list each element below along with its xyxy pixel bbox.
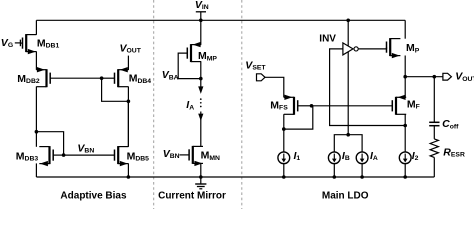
wire MDB2 drain down [35, 87, 37, 132]
wire IA to rail [361, 164, 363, 177]
inverter INV [343, 43, 358, 55]
transistor MMN [180, 146, 204, 166]
current IA arrow lower [198, 112, 203, 147]
svg-text:VBA: VBA [162, 69, 179, 81]
junction VIN-rail [199, 19, 203, 23]
transistor MDB1 [21, 34, 37, 54]
wire MDB3 source to rail [35, 163, 37, 177]
wire MDB5 source to rail [127, 163, 129, 177]
svg-text:MFS: MFS [270, 99, 288, 111]
wire INV input [330, 49, 406, 126]
wire MFS gate [298, 105, 312, 107]
junction MDB4 drain [127, 100, 131, 104]
wire MP drain down [404, 56, 406, 77]
label MDB3 [16, 150, 39, 162]
wire VOUT stub [127, 56, 129, 70]
wire MDB1 source to MDB2 [35, 51, 37, 70]
junction MDB5 rail [127, 175, 131, 179]
svg-text:MDB4: MDB4 [129, 73, 152, 85]
label MF [407, 99, 420, 111]
svg-text:VG: VG [1, 37, 13, 49]
svg-text:I1: I1 [294, 150, 301, 162]
current source IB [328, 152, 340, 164]
svg-text:MF: MF [407, 99, 420, 111]
svg-text:MDB3: MDB3 [16, 150, 39, 162]
node VBA label [162, 69, 179, 81]
wire MDB1 drain to rail [35, 20, 37, 35]
node VSET label [245, 60, 266, 72]
wire MF to I2 [404, 126, 406, 152]
wire MMP gate [178, 53, 201, 79]
label MP [406, 42, 420, 54]
label MFS [270, 99, 288, 111]
wire MDB3 drain [35, 132, 37, 147]
terminal VG [15, 40, 21, 47]
svg-text:MDB5: MDB5 [127, 150, 150, 162]
wire INV out [358, 48, 386, 50]
svg-text:VIN: VIN [195, 0, 209, 11]
junction IA rail [360, 175, 364, 179]
wire to I1 [283, 129, 285, 152]
node VBN label mirror [163, 148, 180, 160]
junction I1 rail [282, 175, 286, 179]
dotted continuation [200, 98, 202, 107]
ground symbol [195, 177, 206, 189]
wire ground bottom rail [36, 176, 434, 178]
section separator (dashed) 2 [241, 0, 243, 209]
svg-text:INV: INV [319, 33, 336, 44]
svg-text:VOUT: VOUT [455, 71, 474, 83]
label IA2 [370, 150, 378, 162]
section label Main LDO [322, 190, 369, 201]
wire MF drain up [404, 77, 406, 98]
svg-text:VBN: VBN [163, 148, 180, 160]
junction I2 rail [403, 175, 407, 179]
svg-text:I2: I2 [412, 150, 419, 162]
terminal VOUT flag [443, 73, 452, 80]
wire MMN source to rail [200, 163, 202, 177]
wire INV low to bracket [347, 52, 349, 135]
svg-text:Adaptive Bias: Adaptive Bias [60, 190, 127, 201]
wire bracket [334, 135, 362, 152]
wire VOUT right [405, 76, 443, 78]
svg-text:MMN: MMN [201, 150, 220, 162]
transistor MMP [187, 42, 201, 62]
node VIN label [195, 0, 209, 11]
label MMN [201, 150, 220, 162]
terminal VSET flag [257, 74, 266, 81]
wire rail to MP [404, 20, 406, 38]
wire Coff to Resr [433, 126, 435, 139]
transistor MDB3 [39, 146, 53, 166]
junction MMN rail [199, 175, 203, 179]
wire IB to rail [333, 164, 335, 177]
svg-text:Main LDO: Main LDO [322, 190, 369, 201]
transistor MDB5 [115, 146, 129, 166]
node VG label [1, 37, 13, 49]
wire MFS diode link [284, 106, 313, 129]
terminal VIN [196, 12, 206, 20]
wire VBN [64, 154, 115, 156]
label Coff [442, 118, 459, 130]
junction MFS gate node [310, 104, 314, 108]
wire gate bus MFS-MF [312, 105, 393, 107]
svg-text:IA: IA [370, 150, 378, 162]
resistor RESR [430, 139, 438, 158]
svg-text:MDB2: MDB2 [17, 73, 40, 85]
wire I2 to rail [404, 164, 406, 177]
label IA mirror [186, 99, 194, 111]
section label Current Mirror [158, 190, 226, 201]
wire MDB5 drain up [127, 101, 129, 146]
transistor MDB2 [36, 67, 50, 87]
svg-text:RESR: RESR [443, 146, 465, 158]
junction VBN left node [62, 153, 66, 157]
svg-text:Coff: Coff [442, 118, 459, 130]
label MDB1 [37, 37, 60, 49]
current source I1 [278, 152, 290, 164]
junction MF source node [403, 124, 407, 128]
label RESR [443, 146, 465, 158]
wire I1 to rail [283, 164, 285, 177]
wire VIN top rail [36, 19, 405, 21]
transistor MDB4 [102, 67, 129, 87]
junction VOUT-Coff [433, 75, 437, 79]
wire MDB2 gate [50, 77, 101, 79]
label MMP [198, 50, 217, 62]
svg-text:Current Mirror: Current Mirror [158, 190, 226, 201]
section separator (dashed) [153, 0, 155, 209]
wire MMP source [200, 62, 202, 79]
current source IA2 [356, 152, 368, 164]
label I1 [294, 150, 301, 162]
junction INV supply rail [346, 19, 350, 23]
current source I2 [399, 152, 411, 164]
junction IB rail [333, 175, 337, 179]
junction MDB3 top [35, 130, 39, 134]
capacitor Coff [429, 122, 439, 125]
transistor MFS [284, 95, 298, 115]
wire MDB3 gate loop [36, 132, 63, 155]
junction MFS drain [282, 127, 286, 131]
wire Resr to rail [433, 157, 435, 177]
junction VOUT node [403, 75, 407, 79]
label I2 [412, 150, 419, 162]
transistor MF [392, 95, 406, 115]
label IB [342, 150, 350, 162]
junction VBA [199, 77, 203, 81]
label MDB2 [17, 73, 40, 85]
svg-text:MMP: MMP [198, 50, 217, 62]
wire Coff top [433, 77, 435, 122]
junction gate node [100, 76, 104, 80]
transistor MP [387, 38, 401, 58]
wire MDB4 diode link [102, 78, 129, 101]
wire VSET to MFS [265, 77, 284, 97]
junction bracket [346, 133, 350, 137]
label MDB4 [129, 73, 152, 85]
svg-text:MP: MP [406, 42, 420, 54]
section label Adaptive Bias [60, 190, 127, 201]
svg-text:VOUT: VOUT [120, 42, 142, 54]
node VBN label left [77, 142, 94, 154]
svg-text:IB: IB [342, 150, 350, 162]
svg-text:VSET: VSET [245, 60, 266, 72]
wire MDB4 drain to MDB5 [127, 87, 129, 147]
label MDB5 [127, 150, 150, 162]
node VOUT label right [455, 71, 474, 83]
current IA arrow upper [198, 79, 203, 94]
node VOUT left label [120, 42, 142, 54]
wire MF source down [404, 114, 406, 125]
wire MFS drain down [283, 114, 285, 129]
label INV [319, 33, 336, 44]
svg-text:VBN: VBN [77, 142, 94, 154]
wire INV supply [347, 20, 349, 46]
wire MMP drain to rail [200, 20, 202, 44]
svg-text:IA: IA [186, 99, 194, 111]
svg-text:MDB1: MDB1 [37, 37, 60, 49]
